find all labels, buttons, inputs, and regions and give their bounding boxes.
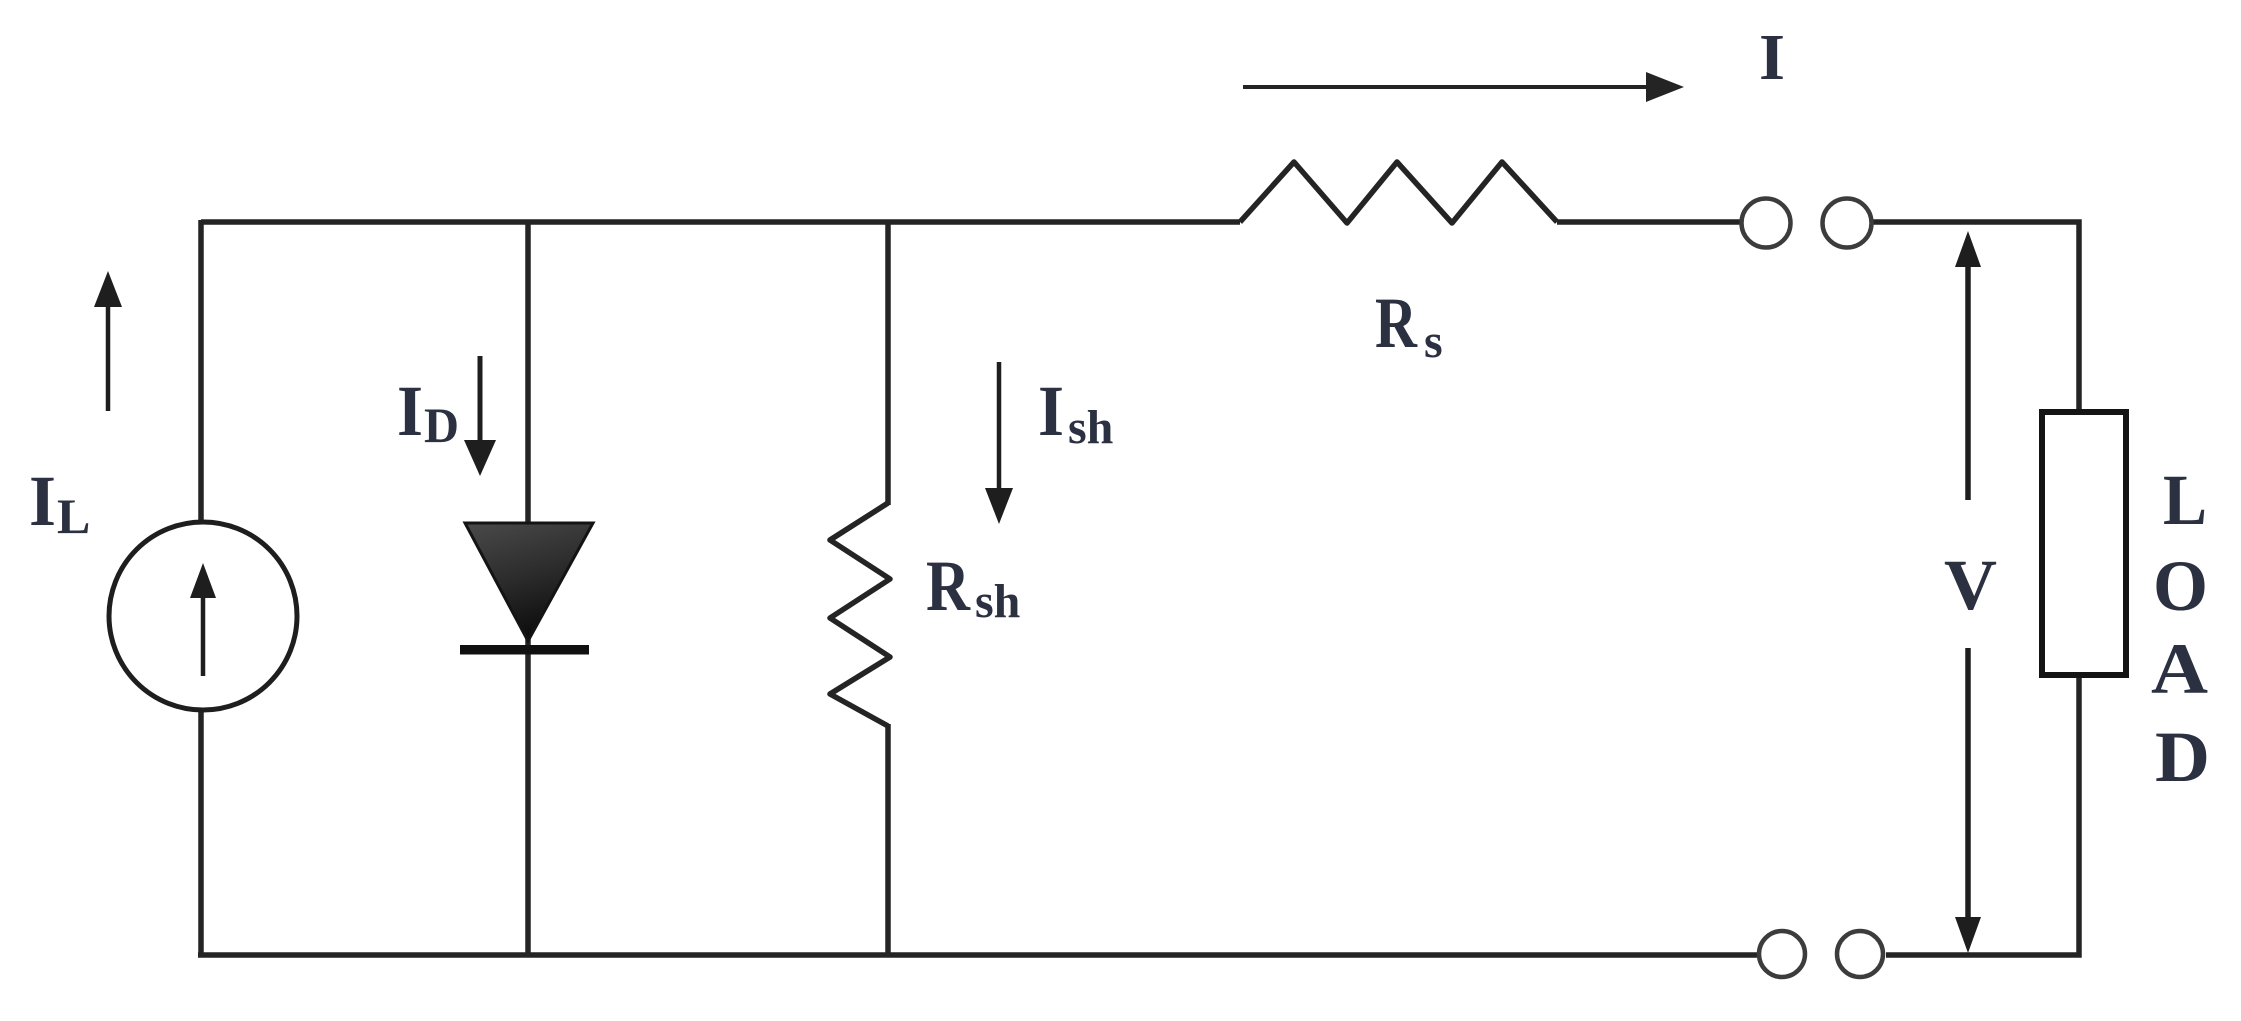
wire: shunt branch bottom segment [885, 724, 891, 955]
arrow: photocurrent IL (left, up) [94, 271, 122, 411]
svg-text:Ish: Ish [1038, 371, 1113, 454]
wire: shunt branch top segment [885, 222, 891, 505]
svg-text:Rs: Rs [1375, 283, 1443, 368]
svg-text:IL: IL [29, 461, 90, 544]
LOAD resistor rectangle [2042, 412, 2126, 675]
svg-text:D: D [2155, 717, 2210, 797]
arrow: shunt current Ish (down) [985, 362, 1013, 524]
wire: diode branch vertical [525, 222, 531, 955]
terminal circle bottom-left [1759, 931, 1805, 977]
wire: top right from terminal to load corner [1873, 222, 2079, 414]
terminal circle bottom-right [1837, 931, 1883, 977]
diode D1 triangle [465, 523, 593, 641]
svg-text:O: O [2153, 546, 2208, 626]
arrow: diode current ID (down) [464, 356, 496, 476]
current source arrow (inside) [190, 563, 216, 676]
voltage arrow V lower segment with down arrowhead [1955, 648, 1981, 953]
diode D1 cathode bar [460, 645, 589, 655]
wire: top bus from Rs to top terminal [1557, 219, 1740, 225]
arrow: output current I (top) [1243, 72, 1684, 102]
wire: bottom right from load to terminal [1886, 675, 2079, 955]
svg-text:I: I [1759, 21, 1785, 94]
voltage arrow V upper segment with up arrowhead [1955, 231, 1981, 500]
wire: left vertical branch [198, 220, 204, 955]
terminal circle top-left [1742, 199, 1791, 248]
wire: top bus from left corner to Rs [201, 219, 1240, 225]
current source U1 circle [109, 522, 297, 710]
svg-text:L: L [2163, 460, 2207, 540]
resistor Rsh (shunt) zigzag [830, 503, 890, 726]
svg-text:ID: ID [397, 371, 459, 453]
wire: bottom bus [198, 952, 1757, 958]
terminal circle top-right [1823, 199, 1872, 248]
svg-text:A: A [2151, 629, 2208, 709]
svg-text:Rsh: Rsh [926, 546, 1020, 628]
resistor Rs (series) zigzag [1240, 162, 1557, 223]
svg-text:V: V [1944, 545, 1997, 625]
